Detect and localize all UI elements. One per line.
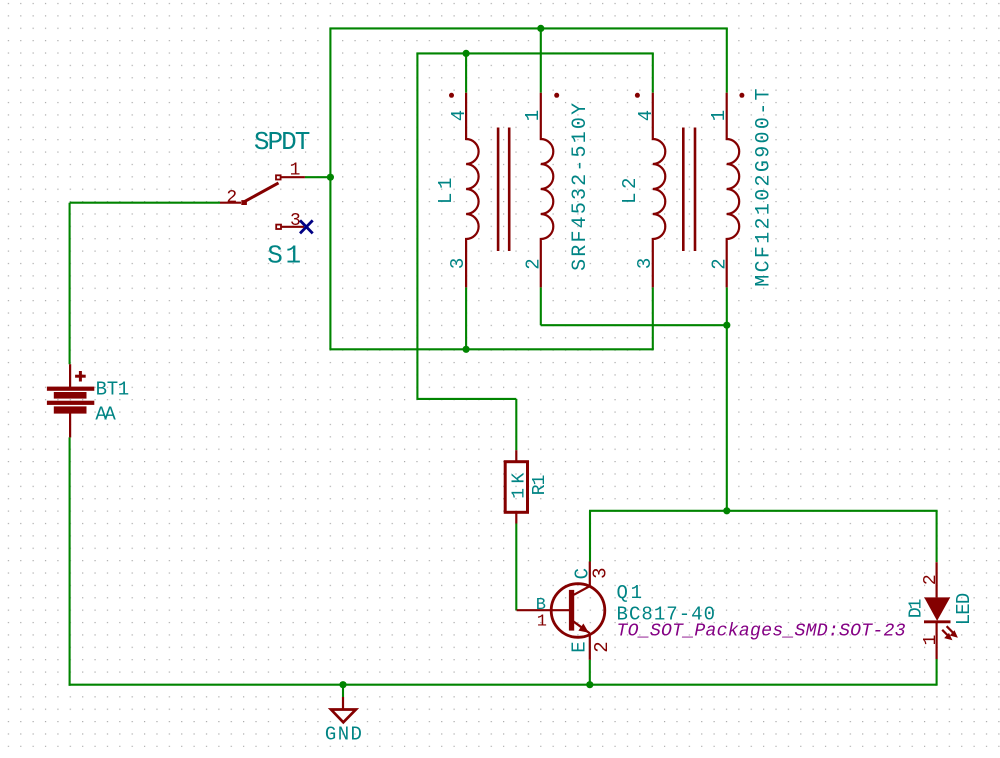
svg-text:BT1: BT1 — [96, 378, 130, 400]
Q1 base bar — [569, 590, 574, 631]
svg-text:3: 3 — [589, 567, 611, 578]
wire — [652, 287, 654, 349]
svg-text:LED: LED — [953, 593, 975, 626]
D1 pin 1 cathode — [935, 622, 937, 659]
wire — [69, 203, 71, 365]
wire — [329, 28, 331, 349]
wire — [416, 53, 418, 400]
BT1 plus sign — [79, 371, 82, 382]
svg-text:2: 2 — [591, 641, 613, 652]
Q1 pin 1 base — [517, 609, 570, 611]
wire — [541, 324, 727, 326]
L1 polarity dots — [449, 93, 454, 98]
R1 pin 2 (bottom) — [515, 512, 517, 523]
wire — [417, 398, 516, 400]
BT1 plates — [47, 387, 94, 391]
battery BT1 — [47, 364, 129, 437]
wire — [589, 510, 938, 512]
L2 secondary winding (pins 1-2) — [727, 93, 739, 288]
svg-text:D1: D1 — [906, 599, 926, 619]
wire — [329, 27, 727, 29]
junction — [586, 681, 593, 688]
wire — [329, 348, 653, 350]
junction — [339, 681, 346, 688]
wire — [726, 287, 728, 510]
transistor Q1 — [517, 562, 906, 660]
wire — [416, 52, 653, 54]
svg-text:TO_SOT_Packages_SMD:SOT-23: TO_SOT_Packages_SMD:SOT-23 — [617, 621, 906, 641]
D1 emission arrows — [947, 626, 956, 635]
BT1 pin - (bottom) — [69, 413, 71, 437]
svg-text:1: 1 — [290, 160, 301, 180]
junction — [723, 507, 730, 514]
wire — [342, 685, 344, 697]
L2 primary winding (pins 4-3) — [653, 93, 666, 288]
svg-text:3: 3 — [634, 258, 656, 269]
Q1 pin 3 collector — [574, 586, 590, 595]
no-connect X — [300, 220, 313, 233]
wire — [540, 287, 542, 325]
transformer L1 — [435, 93, 592, 288]
junction — [723, 322, 730, 329]
ground — [325, 697, 362, 746]
svg-text:1: 1 — [708, 110, 730, 121]
switch S1 — [220, 127, 310, 271]
L2 core — [682, 128, 685, 252]
D1 triangle — [924, 597, 950, 621]
wire — [936, 659, 938, 686]
R1 pin 1 (top) — [515, 450, 517, 462]
svg-text:2: 2 — [921, 574, 941, 585]
GND triangle — [331, 710, 356, 723]
wire — [465, 287, 467, 349]
wire — [589, 660, 591, 685]
svg-text:E: E — [569, 641, 591, 652]
svg-text:1: 1 — [522, 110, 544, 121]
wire — [540, 28, 542, 92]
LED D1 — [906, 562, 975, 659]
BT1 pin + (top) — [69, 364, 71, 387]
svg-text:4: 4 — [448, 110, 470, 121]
svg-text:AA: AA — [95, 403, 116, 425]
junction — [463, 50, 470, 57]
wire — [69, 437, 71, 685]
wire — [70, 202, 220, 204]
L2 polarity dots — [635, 93, 640, 98]
S1 pin 2 — [220, 202, 241, 204]
wire — [515, 399, 517, 450]
D1 cathode bar — [924, 620, 951, 623]
Q1 pin 2 emitter with arrow — [573, 621, 590, 633]
S1 pin 3 — [276, 225, 281, 229]
transformer L2 — [619, 88, 776, 287]
S1 pin 1 — [276, 175, 281, 179]
L1 secondary winding (pins 1-2) — [541, 93, 554, 288]
GND pin — [342, 697, 344, 710]
wire — [305, 176, 331, 178]
wire — [69, 684, 937, 686]
junction — [463, 346, 470, 353]
D1 pin 2 anode — [935, 562, 937, 597]
junction — [327, 174, 334, 181]
svg-text:1: 1 — [921, 635, 941, 646]
Q1 body circle — [551, 584, 605, 638]
junction — [537, 25, 544, 32]
L1 primary winding (pins 4-3) — [466, 93, 478, 288]
R1 body — [505, 462, 527, 513]
svg-text:GND: GND — [325, 724, 362, 746]
svg-text:4: 4 — [635, 110, 657, 121]
wire — [652, 53, 654, 92]
svg-text:2: 2 — [523, 258, 545, 269]
svg-text:2: 2 — [709, 258, 731, 269]
svg-text:3: 3 — [447, 258, 469, 269]
svg-text:1: 1 — [537, 612, 547, 631]
svg-text:2: 2 — [226, 188, 237, 208]
wire — [589, 511, 591, 562]
L1 core — [497, 128, 500, 252]
wire — [465, 53, 467, 92]
svg-text:SPDT: SPDT — [254, 127, 311, 157]
wire — [726, 28, 728, 92]
resistor R1 — [505, 450, 550, 523]
svg-text:R1: R1 — [530, 475, 550, 496]
wire — [936, 511, 938, 562]
S1 lever — [244, 183, 278, 202]
wire — [515, 524, 517, 611]
